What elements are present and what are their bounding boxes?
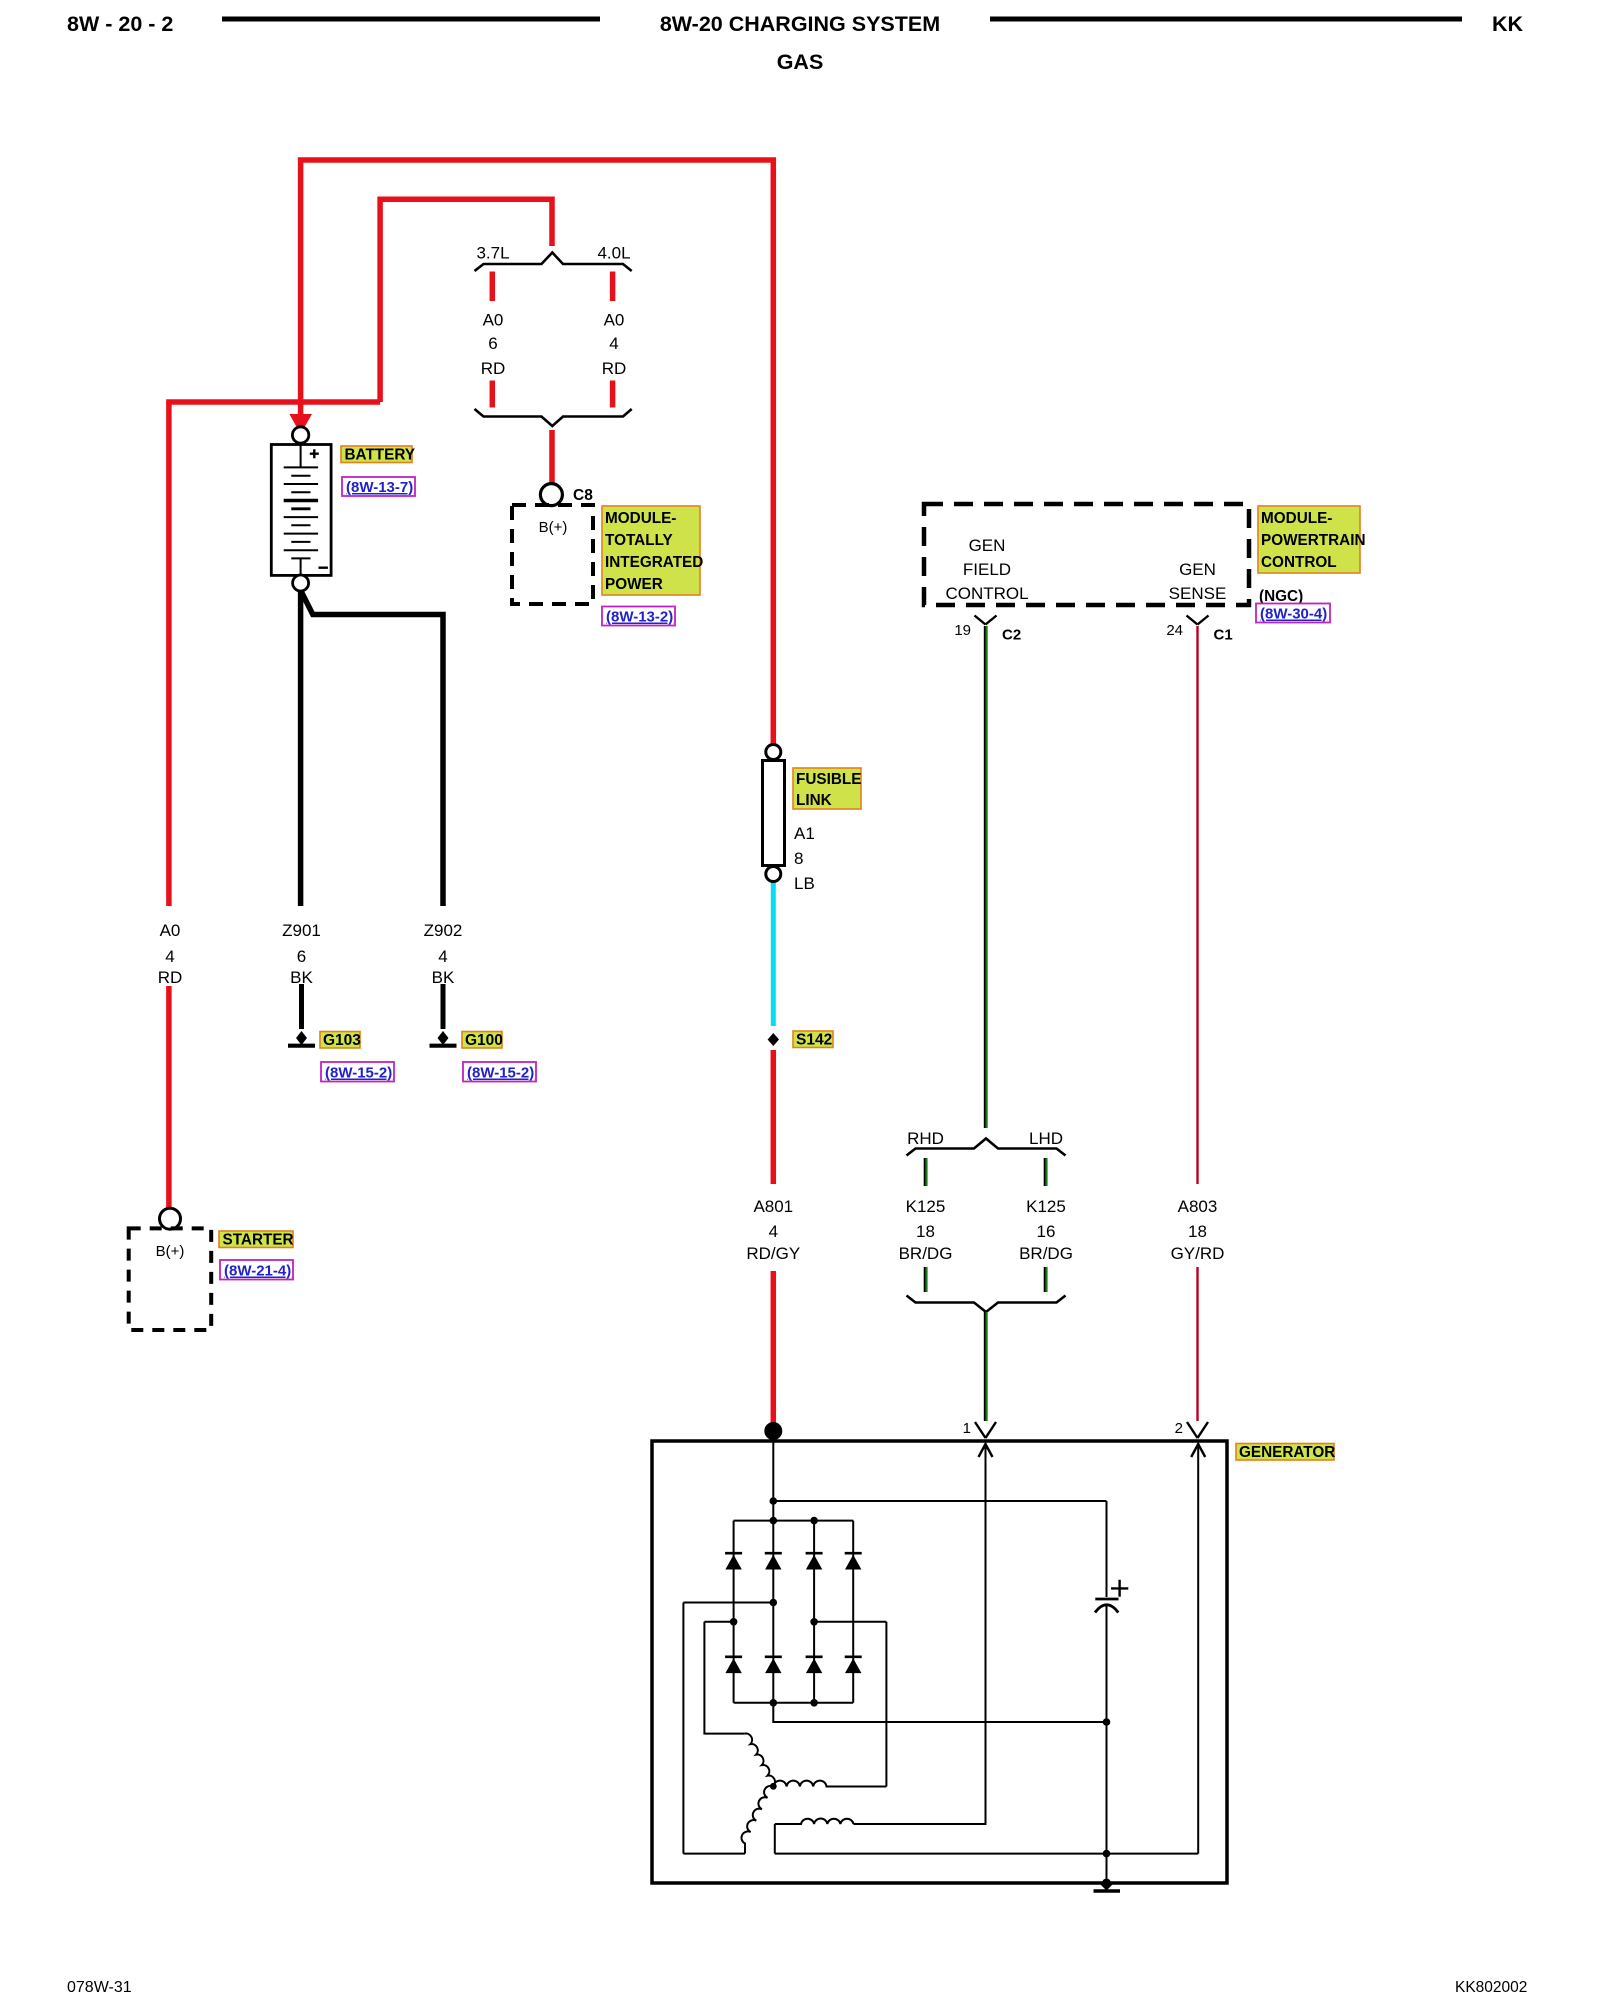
link 8W-15-2 left [321,1062,394,1082]
wire C8 drop to TIPM [549,430,555,483]
wire capacitor lower lead to ground [1106,1605,1108,1882]
wire stub to G100 [441,984,446,1029]
svg-text:TOTALLY: TOTALLY [605,532,673,549]
label STARTER [219,1231,293,1248]
wire pin 1 to field [854,1443,986,1824]
wire stub K125 18 upper [924,1158,926,1186]
connector symbol C1 [1187,616,1209,625]
arrow pin 1 internal [979,1444,993,1457]
wire field return drop [774,1824,776,1854]
diode column 1 wire [733,1521,735,1703]
battery minus sign [319,567,328,569]
diode D6 [765,1657,782,1673]
svg-text:24: 24 [1166,622,1183,639]
svg-text:A803: A803 [1178,1197,1218,1216]
svg-text:BATTERY: BATTERY [345,447,416,464]
fusible link top terminal [766,745,781,760]
phase rail 1 [683,1602,773,1604]
svg-text:(8W-30-4): (8W-30-4) [1260,606,1327,623]
svg-text:FIELD: FIELD [963,560,1011,579]
svg-text:KK: KK [1492,12,1524,36]
label FUSIBLE LINK [793,768,861,809]
svg-text:GAS: GAS [777,50,824,74]
link 8W-13-7 [342,477,415,496]
svg-text:4.0L: 4.0L [597,244,630,263]
link 8W-15-2 right [463,1062,536,1082]
diode bridge top bus [734,1520,854,1522]
wire stator bottom horizontal [683,1853,745,1855]
svg-text:K125: K125 [906,1197,946,1216]
brace RHD/LHD merge bottom [907,1296,1066,1313]
svg-text:16: 16 [1037,1222,1056,1241]
label G100 [462,1032,502,1049]
svg-text:POWERTRAIN: POWERTRAIN [1261,532,1366,549]
wire A0 4 RD to starter lower segment [166,986,172,1208]
capacitor C positive plate [1095,1598,1118,1601]
label Z901 6 BK [282,921,321,987]
wire capacitor upper lead [1106,1501,1108,1597]
svg-text:LHD: LHD [1029,1129,1063,1148]
svg-text:RD: RD [481,359,506,378]
phase rail 3 [814,1621,886,1623]
svg-text:FUSIBLE: FUSIBLE [796,771,861,788]
svg-text:G103: G103 [323,1032,361,1049]
diode D1 [725,1553,742,1569]
wire stator phase B vertical [704,1622,744,1734]
svg-text:A1: A1 [794,824,815,843]
label BATTERY [341,446,412,463]
capacitor C curved plate [1095,1605,1118,1613]
svg-text:BR/DG: BR/DG [1019,1244,1073,1263]
diode D8 [845,1657,862,1673]
svg-text:INTEGRATED: INTEGRATED [605,554,703,571]
label G103 [320,1032,360,1049]
header rule left [222,17,600,22]
svg-text:18: 18 [1188,1222,1207,1241]
svg-text:8W-20 CHARGING SYSTEM: 8W-20 CHARGING SYSTEM [660,12,940,36]
label K125 16 BR/DG [1019,1197,1073,1263]
label GEN FIELD CONTROL [945,536,1028,603]
wire stub K125 18 lower [924,1267,926,1292]
svg-text:078W-31: 078W-31 [67,1979,132,1996]
svg-text:GY/RD: GY/RD [1171,1244,1225,1263]
wire A1 8 LB cyan below fusible link [771,881,776,1026]
svg-text:Z901: Z901 [282,921,321,940]
diode D2 [765,1553,782,1569]
starter dashed box [129,1228,212,1330]
svg-text:4: 4 [165,947,174,966]
ground symbol generator case [1101,1885,1113,1891]
svg-text:STARTER: STARTER [223,1232,294,1249]
node ground junction dot [1103,1850,1111,1858]
svg-text:3.7L: 3.7L [476,244,509,263]
svg-text:KK802002: KK802002 [1455,1979,1527,1996]
wire ground bus to capacitor [773,1721,1106,1723]
diode D3 [806,1553,823,1569]
label A0 4 RD [158,921,183,987]
svg-text:GEN: GEN [1179,560,1216,579]
fusible link body [763,761,785,866]
wire stub to G103 [299,984,304,1029]
connector symbol generator pin 2 [1187,1422,1208,1438]
wire Z901 6 BK from battery negative [298,590,304,906]
diode bridge bottom bus [734,1702,854,1704]
ground G100 [438,1031,449,1045]
brace engine split bottom [475,409,632,426]
brace RHD/LHD split top [907,1139,1066,1156]
svg-text:A0: A0 [160,921,181,940]
svg-text:(8W-15-2): (8W-15-2) [325,1065,392,1082]
svg-text:CONTROL: CONTROL [945,584,1028,603]
wire stub A0 4 RD upper [610,272,616,302]
connector symbol C2 [975,616,997,625]
wire stub A0 6 RD upper [490,272,496,302]
wire A0 RD branch to TIPM C8 [380,199,552,402]
stator winding L3 [741,1786,773,1854]
svg-text:RD/GY: RD/GY [746,1244,800,1263]
wire A801 upper segment from S142 [771,1050,777,1184]
svg-text:(8W-13-2): (8W-13-2) [606,609,673,626]
splice S142 [768,1033,779,1046]
stator winding L2 [773,1781,886,1787]
diode D4 [845,1553,862,1569]
label MODULE-POWERTRAIN CONTROL [1258,506,1360,573]
svg-text:A801: A801 [753,1197,793,1216]
svg-text:18: 18 [916,1222,935,1241]
wire gen field control upper segment black+dark green [984,626,986,1128]
fusible link bottom terminal [766,867,781,882]
svg-text:SENSE: SENSE [1169,584,1227,603]
svg-text:(NGC): (NGC) [1259,588,1303,605]
module PCM dashed box [924,504,1249,605]
svg-text:8W - 20 - 2: 8W - 20 - 2 [67,12,173,36]
wire Z902 4 BK from battery negative [302,592,444,906]
diode D5 [725,1657,742,1673]
field winding L4 [775,1818,854,1824]
arrow into battery positive [289,414,312,434]
wire pin 2 drop [1197,1443,1199,1854]
brace engine split top [475,253,632,272]
svg-text:(8W-21-4): (8W-21-4) [224,1263,291,1280]
svg-text:6: 6 [488,334,497,353]
label GEN SENSE [1169,560,1227,603]
link 8W-13-2 [602,607,675,626]
starter terminal circle [160,1208,181,1229]
wire junction horizontal at battery [166,399,380,405]
phase rail 2 [704,1621,733,1623]
svg-text:RD: RD [158,968,183,987]
svg-text:(8W-13-7): (8W-13-7) [346,479,413,496]
svg-text:C1: C1 [1214,627,1233,644]
label A0 4 RD [602,311,627,379]
node B+ branch dot [770,1497,778,1505]
svg-text:Z902: Z902 [424,921,463,940]
battery top stub [300,443,302,467]
svg-text:S142: S142 [796,1032,832,1049]
battery plus sign [310,449,319,458]
link 8W-21-4 [220,1260,293,1280]
wire field return to ground and pin 2 [775,1853,1198,1855]
svg-text:RHD: RHD [907,1129,944,1148]
svg-text:C2: C2 [1002,627,1021,644]
wire phase rail 3 drop [885,1622,887,1787]
svg-text:6: 6 [297,947,306,966]
arrow pin 2 internal [1191,1444,1205,1457]
wire A803 18 GY/RD lower segment [1196,1267,1198,1421]
wire gen field control lower segment to generator pin 1 [984,1312,986,1421]
svg-text:MODULE-: MODULE- [605,510,676,527]
svg-text:LINK: LINK [796,792,832,809]
label A801 4 RD/GY [746,1197,800,1263]
wire stub A0 4 RD lower [610,381,616,408]
wire B+ vertical into bridge [772,1441,774,1723]
svg-text:8: 8 [794,849,803,868]
svg-text:CONTROL: CONTROL [1261,554,1337,571]
svg-text:B(+): B(+) [539,519,568,536]
capacitor C plus sign [1111,1580,1128,1597]
generator box [652,1441,1227,1883]
svg-text:B(+): B(+) [156,1243,185,1260]
battery bottom stub [300,558,302,575]
battery body [271,445,331,576]
label A803 18 GY/RD [1171,1197,1225,1263]
wire stub K125 16 lower [1044,1267,1046,1292]
label A0 6 RD [481,311,506,379]
battery cells [284,467,318,558]
svg-text:MODULE-: MODULE- [1261,510,1332,527]
node B+ input junction dot [764,1422,782,1440]
diode D7 [806,1657,823,1673]
svg-text:4: 4 [609,334,618,353]
svg-text:GEN: GEN [969,536,1006,555]
svg-text:POWER: POWER [605,576,663,593]
wire stub A0 6 RD lower [490,381,496,408]
wire A803 18 GY/RD upper segment [1196,626,1198,1184]
wire stator phase A vertical [682,1603,684,1854]
connector C8 [540,484,562,506]
diode column 3 wire [813,1521,815,1703]
svg-text:G100: G100 [465,1032,503,1049]
svg-text:4: 4 [769,1222,778,1241]
label GENERATOR [1236,1444,1334,1461]
module TIPM dashed box [512,505,593,604]
svg-text:LB: LB [794,874,815,893]
svg-text:2: 2 [1175,1420,1183,1437]
stator winding L1 [745,1734,775,1787]
svg-text:A0: A0 [483,311,504,330]
svg-text:RD: RD [602,359,627,378]
svg-text:GENERATOR: GENERATOR [1239,1444,1335,1461]
label MODULE-TOTALLY INTEGRATED POWER [602,506,700,595]
link 8W-30-4 [1256,604,1330,623]
diode column 4 wire [852,1521,854,1703]
label Z902 4 BK [424,921,463,987]
wire A0 RD battery feed top run [301,160,774,744]
svg-text:BR/DG: BR/DG [899,1244,953,1263]
wire B+ to capacitor [773,1500,1106,1502]
wire A0 4 RD to starter upper segment [166,402,172,906]
svg-text:(8W-15-2): (8W-15-2) [467,1065,534,1082]
ground G103 [296,1031,307,1045]
connector symbol generator pin 1 [975,1422,996,1438]
node ground at case dot [1102,1879,1111,1888]
wire stub K125 16 upper [1044,1158,1046,1186]
svg-text:4: 4 [438,947,447,966]
svg-text:K125: K125 [1026,1197,1066,1216]
svg-text:C8: C8 [573,487,593,504]
svg-text:1: 1 [963,1420,971,1437]
label S142 [793,1031,833,1048]
svg-text:A0: A0 [604,311,625,330]
battery terminal circle positive [292,427,308,443]
label K125 18 BR/DG [899,1197,953,1263]
battery terminal circle negative [293,575,309,591]
svg-text:19: 19 [954,622,971,639]
header rule right [990,17,1462,22]
node stator Y center [770,1783,777,1790]
wire A801 4 RD/GY lower segment to generator [771,1271,777,1429]
